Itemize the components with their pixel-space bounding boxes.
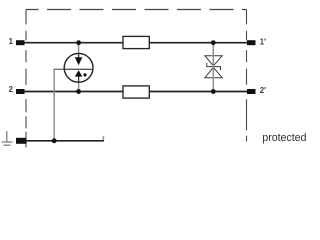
svg-text:1′: 1′ <box>260 37 266 46</box>
svg-text:2′: 2′ <box>260 86 266 95</box>
svg-text:2: 2 <box>9 85 14 94</box>
svg-text:protected: protected <box>262 132 306 144</box>
svg-text:1: 1 <box>9 37 14 46</box>
